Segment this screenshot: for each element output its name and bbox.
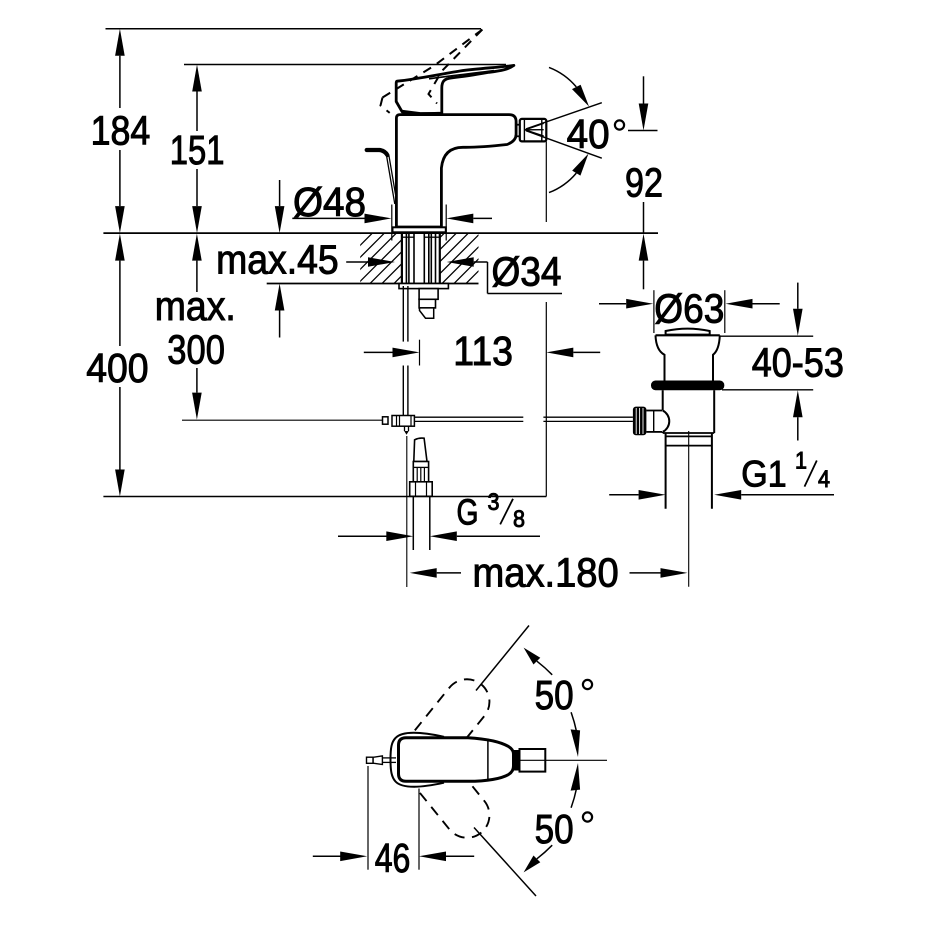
dimension 113 bbox=[364, 340, 600, 366]
svg-text:300: 300 bbox=[167, 327, 225, 373]
svg-text:8: 8 bbox=[513, 506, 525, 533]
rod shaft into drain bbox=[646, 410, 662, 412]
svg-text:4: 4 bbox=[818, 466, 830, 493]
max.45 leader arrow to shank bbox=[346, 257, 395, 267]
50-degree boundary line lower bbox=[474, 828, 536, 897]
drain centerline bbox=[688, 431, 690, 587]
pop-up rod knob at faucet bbox=[367, 150, 388, 155]
linkage lower stub bbox=[404, 426, 406, 431]
40-degree spray cone lines bbox=[526, 103, 602, 129]
50-degree arc upper bbox=[537, 661, 552, 675]
svg-text:max.45: max.45 bbox=[216, 237, 339, 283]
handle swung dashed (lower) bbox=[389, 727, 498, 847]
floor reference line (400 bottom) bbox=[103, 496, 546, 498]
dimension 40-53 bbox=[720, 283, 814, 441]
spout neck to aerator bbox=[516, 124, 520, 126]
faucet body (top view) bbox=[399, 738, 514, 782]
40-degree arc arrow upper bbox=[549, 67, 576, 87]
centerline bbox=[520, 759, 608, 761]
body divider line bbox=[487, 739, 489, 781]
svg-text:50: 50 bbox=[535, 806, 574, 852]
drain stopper cap bbox=[666, 329, 710, 335]
dimension 400 bbox=[115, 234, 125, 497]
aerator block bbox=[520, 119, 547, 141]
countertop top line bbox=[103, 232, 658, 234]
extension line for 300/rod bbox=[182, 419, 383, 421]
svg-text:G1: G1 bbox=[741, 454, 786, 495]
supply pipe bbox=[403, 286, 408, 416]
pop-up rod diagonal bbox=[387, 156, 395, 204]
svg-text:40: 40 bbox=[567, 111, 610, 157]
lever hub bottom thick strip bbox=[402, 112, 442, 114]
base flange bbox=[393, 227, 446, 232]
svg-text:G: G bbox=[457, 491, 479, 532]
hose knurled section bbox=[413, 462, 428, 482]
lever handle (solid) bbox=[396, 65, 514, 114]
mounting nut below countertop bbox=[399, 284, 448, 289]
faucet body (side view) bbox=[396, 115, 516, 227]
pop-up rod linkage bbox=[392, 416, 414, 427]
lever handle raised (dashed) bbox=[381, 30, 483, 113]
svg-text:max.180: max.180 bbox=[473, 550, 619, 596]
flexible hose to G3/8 bbox=[414, 438, 427, 461]
50-degree boundary line upper bbox=[476, 626, 529, 691]
dimension 151 bbox=[192, 65, 202, 234]
shank step 2 bbox=[419, 289, 438, 300]
threaded shank through countertop bbox=[402, 232, 440, 307]
rod adjustment knob (knurled) bbox=[633, 407, 647, 436]
nozzle block (top view) bbox=[520, 749, 546, 772]
reference line mid (151 level) bbox=[184, 64, 506, 66]
drain body bbox=[662, 390, 664, 410]
svg-text:400: 400 bbox=[86, 345, 148, 391]
dimension max.180 bbox=[407, 436, 688, 587]
escutcheon outline (left bulge) bbox=[391, 733, 445, 787]
reference line top (184 level) bbox=[106, 28, 482, 30]
flow direction arrow in aerator bbox=[525, 123, 544, 136]
dimension G1 1/4 bbox=[609, 490, 834, 500]
svg-text:46: 46 bbox=[375, 835, 411, 881]
svg-text:Ø48: Ø48 bbox=[293, 179, 366, 225]
svg-text:max.: max. bbox=[155, 283, 236, 329]
svg-text:151: 151 bbox=[170, 127, 225, 173]
shank step 4 with chamfer bbox=[420, 308, 434, 318]
dimension G3/8 bbox=[338, 531, 540, 541]
40-degree arc arrow lower bbox=[549, 173, 576, 193]
dimension max.45 bbox=[275, 180, 285, 338]
svg-text:3: 3 bbox=[488, 489, 500, 516]
hose nut bbox=[410, 482, 433, 497]
svg-text:113: 113 bbox=[453, 328, 513, 374]
50-degree arc lower bbox=[537, 845, 552, 859]
nozzle connector bbox=[513, 750, 520, 771]
handle swung dashed (upper) bbox=[389, 670, 498, 790]
dimension 92 bbox=[628, 76, 658, 289]
svg-text:50: 50 bbox=[535, 672, 574, 718]
linkage left tip bbox=[383, 417, 389, 424]
countertop hatching bbox=[310, 234, 516, 284]
svg-text:Ø34: Ø34 bbox=[492, 249, 562, 295]
dimension Ø48 bbox=[292, 205, 492, 241]
dimension 184 bbox=[115, 29, 125, 233]
svg-text:Ø63: Ø63 bbox=[654, 286, 724, 332]
pop-up horizontal rod bbox=[414, 417, 633, 421]
shank step 3 bbox=[419, 299, 435, 308]
Ø34 leader arrow (left-pointing at shank right) bbox=[447, 257, 562, 293]
dimension 46 bbox=[313, 766, 474, 870]
drain flange bbox=[656, 334, 720, 336]
svg-text:40-53: 40-53 bbox=[752, 340, 844, 386]
dimension max.300 bbox=[192, 234, 202, 420]
lever inner ridge line bbox=[429, 71, 494, 79]
svg-text:92: 92 bbox=[625, 160, 663, 206]
dimension Ø63 bbox=[599, 290, 780, 333]
svg-text:1: 1 bbox=[795, 448, 807, 475]
countertop bottom line bbox=[267, 283, 479, 285]
drain tailpipe bbox=[665, 433, 667, 509]
G3/8 pipe bbox=[412, 496, 414, 550]
drain gasket (seal) bbox=[651, 381, 724, 391]
pop-up rod (top view) bbox=[382, 757, 396, 759]
svg-text:184: 184 bbox=[91, 108, 151, 154]
spout vertical extension line bbox=[545, 141, 547, 222]
